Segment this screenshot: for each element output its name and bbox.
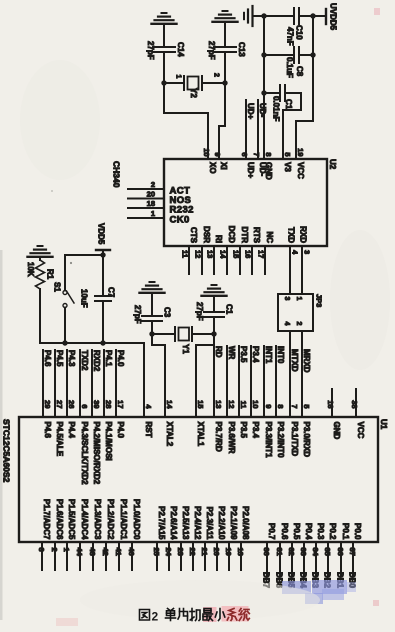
svg-text:27pF: 27pF — [133, 305, 142, 324]
U1 pin 21 P2.3/A11 — [200, 507, 214, 570]
svg-text:XTAL1: XTAL1 — [196, 422, 205, 447]
svg-text:35: 35 — [323, 548, 332, 556]
svg-text:41: 41 — [114, 548, 123, 556]
svg-text:P4.1: P4.1 — [104, 350, 113, 367]
svg-text:P4.5/ALE: P4.5/ALE — [55, 422, 64, 457]
svg-text:R1: R1 — [46, 269, 55, 280]
svg-text:33: 33 — [299, 548, 308, 556]
svg-text:P1.3/ADC3: P1.3/ADC3 — [93, 499, 102, 540]
svg-text:2: 2 — [151, 180, 155, 189]
U1 pin 33 P0.4 — [299, 523, 314, 589]
capacitor C10 47nF — [264, 8, 313, 46]
svg-text:4: 4 — [283, 322, 290, 326]
svg-text:STC12C5A60S2: STC12C5A60S2 — [2, 419, 12, 483]
capacitor C7 10uF — [80, 255, 116, 343]
U1 pin 34 P0.3 — [311, 523, 326, 589]
svg-text:24: 24 — [164, 548, 173, 557]
svg-text:P1.2/ADC2: P1.2/ADC2 — [106, 499, 115, 540]
capacitor C8 0.1uF — [264, 47, 313, 78]
svg-text:CK0: CK0 — [170, 215, 190, 226]
U1 pin 15 XTAL1 — [196, 400, 205, 447]
U1 pin 43 P1.3/ADC3 — [88, 499, 102, 570]
U1 pin 23 P2.5/A13 — [176, 506, 190, 570]
svg-text:INT0: INT0 — [276, 346, 285, 364]
svg-text:30: 30 — [262, 548, 271, 556]
wire Y1 right node — [192, 331, 217, 336]
svg-text:P4.0: P4.0 — [116, 422, 125, 439]
U2 pin 13 RI — [206, 235, 224, 274]
wire C1 to V3 pin — [283, 93, 301, 159]
U1 pin 38 VCC — [350, 389, 365, 439]
svg-text:VCC: VCC — [296, 162, 305, 179]
U2 pin 7 UD- — [252, 152, 267, 176]
svg-text:P3.5: P3.5 — [239, 346, 248, 363]
svg-text:38: 38 — [350, 400, 359, 408]
svg-text:10uF: 10uF — [80, 289, 89, 308]
svg-text:7: 7 — [252, 152, 261, 156]
U2 pin 3 RXD — [299, 226, 312, 294]
svg-text:C1: C1 — [284, 99, 293, 110]
svg-text:32: 32 — [287, 548, 296, 556]
U1 pin 13 P3.7/RD — [214, 346, 223, 452]
crystal Y1 — [175, 327, 192, 354]
U1 pin 35 P0.2 — [323, 523, 338, 589]
svg-text:P3.1/TXD: P3.1/TXD — [290, 422, 299, 457]
svg-text:3: 3 — [283, 297, 290, 301]
U2 pin 11 CTS — [181, 227, 199, 274]
capacitor C1 0.01nF — [264, 85, 301, 121]
svg-text:25: 25 — [152, 548, 161, 556]
svg-text:P3.6/WR: P3.6/WR — [227, 422, 236, 454]
wire Y2 to U2 XI — [219, 83, 225, 159]
svg-text:GND: GND — [264, 162, 273, 180]
svg-text:TXD: TXD — [287, 227, 296, 243]
ground (C3) — [140, 282, 165, 293]
svg-text:P2.3/A11: P2.3/A11 — [205, 507, 214, 540]
U1 pin 24 P2.6/A14 — [164, 506, 178, 570]
U1 pin 17 P4.0 — [116, 350, 125, 439]
svg-text:16: 16 — [326, 400, 335, 408]
wire JP3 to U1 MTXD — [289, 331, 291, 417]
svg-text:26: 26 — [67, 400, 76, 408]
U1 pin 25 P2.7/A15 — [152, 506, 166, 570]
wire Y2 to U2 XO — [164, 83, 208, 159]
wire Y1 to XTAL1 — [196, 334, 214, 417]
svg-text:43: 43 — [88, 548, 97, 556]
U2 pin 1 CK0 — [128, 209, 190, 226]
svg-text:47nF: 47nF — [286, 27, 295, 46]
U1 pin 3 P1.7/ADC7 — [37, 499, 51, 570]
svg-text:UD-: UD- — [258, 103, 267, 118]
svg-text:P0.3: P0.3 — [316, 523, 325, 540]
svg-text:16: 16 — [244, 250, 253, 258]
svg-text:19: 19 — [296, 148, 305, 156]
U1 pin 36 P0.1 — [336, 523, 351, 589]
U2 pin 9 XI — [213, 152, 228, 169]
svg-text:12: 12 — [194, 250, 203, 258]
svg-text:2: 2 — [295, 322, 302, 326]
svg-text:27pF: 27pF — [146, 41, 155, 60]
svg-text:11: 11 — [181, 250, 190, 258]
svg-text:0.01nF: 0.01nF — [272, 96, 281, 121]
svg-text:TXD2: TXD2 — [80, 350, 89, 371]
connector JP3 — [278, 294, 324, 331]
U1 pin 7 P3.1/TXD — [290, 349, 299, 456]
svg-text:P0.5: P0.5 — [292, 523, 301, 540]
svg-text:34: 34 — [311, 548, 320, 557]
svg-text:P2.5/A13: P2.5/A13 — [181, 506, 190, 540]
svg-text:10: 10 — [202, 148, 211, 156]
wire Y2 pin1 row — [161, 80, 184, 85]
U1 pin 4 RST — [144, 404, 153, 437]
svg-text:P3.7/RD: P3.7/RD — [214, 422, 223, 452]
wire UVDD5 bus to VCC pin — [296, 13, 316, 159]
op-amp U1 STC12C5A60S2 box — [19, 417, 378, 542]
svg-text:C3: C3 — [163, 307, 172, 318]
U1 pin 9 P3.3/INT1 — [264, 346, 273, 458]
svg-text:P4.1/MOSI: P4.1/MOSI — [104, 422, 113, 461]
U2 pin 20 NOS — [128, 189, 191, 206]
svg-text:P0.7: P0.7 — [267, 523, 276, 540]
svg-text:C1: C1 — [225, 304, 234, 315]
svg-text:P0.1: P0.1 — [341, 523, 350, 540]
svg-text:P2.1/A09: P2.1/A09 — [229, 506, 238, 540]
svg-text:9: 9 — [213, 152, 222, 156]
caption 图2 单片机最小系统 — [203, 606, 249, 622]
power UVDD5 — [313, 3, 338, 31]
svg-text:Y1: Y1 — [181, 344, 190, 354]
svg-text:P1.6/ADC6: P1.6/ADC6 — [55, 499, 64, 540]
U1 pin 27 P4.5/ALE — [55, 350, 64, 457]
switch S1 — [53, 255, 75, 343]
wire RST rail — [40, 340, 144, 345]
svg-text:RD: RD — [214, 346, 223, 358]
net UD- stub — [258, 100, 267, 159]
wire Y1 to XTAL2 — [152, 334, 165, 417]
U2 pin 8 GND — [264, 152, 273, 180]
svg-text:27pF: 27pF — [207, 41, 216, 60]
svg-text:UVDD5: UVDD5 — [329, 3, 338, 31]
U2 pin 14 DCD — [219, 226, 237, 274]
op-amp U2 CH340 box — [164, 159, 327, 246]
ground (R1) — [28, 246, 53, 257]
U1 pin 16 GND — [326, 389, 341, 440]
svg-text:S1: S1 — [53, 282, 62, 292]
svg-text:40: 40 — [127, 548, 136, 556]
svg-text:XTAL2: XTAL2 — [165, 422, 174, 447]
svg-text:P3.4: P3.4 — [251, 346, 260, 363]
U1 pin 6 P4.3/SCLK/TXD2 — [80, 350, 89, 485]
svg-text:C14: C14 — [176, 42, 185, 57]
svg-text:20: 20 — [212, 548, 221, 556]
svg-text:XI: XI — [219, 162, 228, 170]
U1 pin 37 P0.0 — [348, 523, 363, 589]
U1 pin 14 XTAL2 — [165, 400, 174, 447]
capacitor C3 27pF — [133, 294, 172, 334]
svg-text:23: 23 — [176, 548, 185, 556]
U2 pin 2 ACT — [128, 180, 190, 197]
U1 pin 44 P1.4/ADC4 — [75, 499, 89, 570]
svg-text:0.1uF: 0.1uF — [285, 57, 294, 78]
svg-text:18: 18 — [147, 199, 155, 208]
U1 pin 20 P2.2/A10 — [212, 506, 226, 570]
node GND rail — [261, 13, 266, 159]
power VDD5 — [96, 223, 110, 255]
U2 pin 6 UD+ — [240, 152, 255, 178]
U2 pin 4 TXD — [287, 227, 300, 294]
svg-text:18: 18 — [236, 548, 245, 556]
svg-text:P4.3: P4.3 — [67, 350, 76, 367]
svg-text:JP3: JP3 — [315, 294, 324, 307]
U1 pin 22 P2.4/A12 — [188, 506, 202, 570]
svg-text:U2: U2 — [328, 159, 337, 170]
U1 pin 30 P0.7 — [262, 523, 277, 589]
svg-text:GND: GND — [332, 422, 341, 440]
svg-text:P4.0: P4.0 — [116, 350, 125, 367]
U2 pin 19 VCC — [296, 148, 305, 179]
svg-text:XO: XO — [208, 162, 217, 174]
svg-text:DTR: DTR — [240, 227, 249, 244]
U2 pin 10 XO — [202, 148, 217, 173]
svg-text:RTS: RTS — [252, 227, 261, 244]
svg-text:42: 42 — [101, 548, 110, 556]
U1 pin 26 P4.4 — [67, 350, 76, 439]
svg-text:31: 31 — [275, 548, 284, 556]
svg-text:5: 5 — [283, 152, 292, 156]
caption glyphs — [140, 609, 250, 624]
svg-text:MTXD: MTXD — [290, 349, 299, 372]
U1 pin 28 P4.1/MOSI — [104, 350, 113, 461]
svg-text:RXD2: RXD2 — [92, 350, 101, 372]
svg-text:6: 6 — [80, 404, 89, 408]
svg-text:P1.4/ADC4: P1.4/ADC4 — [80, 499, 89, 540]
svg-text:P2.4/A12: P2.4/A12 — [193, 506, 202, 540]
svg-text:DSR: DSR — [202, 226, 211, 243]
U1 pin 11 P3.5 — [239, 346, 248, 439]
svg-text:19: 19 — [224, 548, 233, 556]
svg-text:P4.2/MISO/RXD2: P4.2/MISO/RXD2 — [92, 422, 101, 485]
svg-text:17: 17 — [257, 250, 266, 258]
svg-text:P0.6: P0.6 — [280, 523, 289, 540]
ground (C13) — [213, 11, 238, 22]
ground (C14) — [152, 13, 177, 24]
svg-text:3: 3 — [303, 250, 312, 254]
svg-text:P0.2: P0.2 — [328, 523, 337, 540]
capacitor C13 27pF — [207, 23, 246, 83]
svg-text:P2.2/A10: P2.2/A10 — [217, 506, 226, 540]
svg-text:17: 17 — [116, 400, 125, 408]
svg-text:28: 28 — [104, 400, 113, 408]
svg-text:13: 13 — [214, 400, 223, 408]
svg-text:CH340: CH340 — [112, 161, 122, 188]
U1 pin 18 P2.0/A08 — [236, 506, 250, 570]
svg-text:C13: C13 — [237, 42, 246, 57]
svg-text:VCC: VCC — [356, 422, 365, 439]
svg-text:3: 3 — [37, 548, 46, 552]
svg-text:P4.3/SCLK/TXD2: P4.3/SCLK/TXD2 — [80, 422, 89, 486]
svg-text:7: 7 — [290, 404, 299, 408]
svg-text:10: 10 — [251, 400, 260, 408]
svg-text:29: 29 — [43, 400, 52, 408]
crystal Y2 — [175, 73, 220, 98]
svg-text:P4.5: P4.5 — [55, 350, 64, 367]
svg-text:WR: WR — [227, 346, 236, 360]
U2 pin 12 DSR — [194, 226, 212, 274]
U1 pin 41 P1.1/ADC1 — [114, 499, 128, 570]
svg-text:DCD: DCD — [227, 226, 236, 244]
svg-text:44: 44 — [75, 548, 84, 557]
svg-text:12: 12 — [227, 400, 236, 408]
svg-text:9: 9 — [264, 404, 273, 408]
svg-text:P4.6: P4.6 — [43, 350, 52, 367]
U1 pin 12 P3.6/WR — [227, 346, 236, 454]
U2 pin 15 DTR — [232, 227, 250, 274]
svg-text:1: 1 — [151, 209, 155, 218]
svg-text:2: 2 — [152, 610, 159, 624]
svg-text:14: 14 — [219, 250, 228, 259]
U2 pin 16 RTS — [244, 227, 262, 274]
U2 pin 18 R232 — [128, 199, 194, 216]
svg-text:P1.5/ADC5: P1.5/ADC5 — [67, 499, 76, 540]
U1 pin 32 P0.5 — [287, 523, 302, 589]
svg-text:15: 15 — [232, 250, 241, 258]
U1 pin 5 P3.0/RXD — [302, 349, 311, 457]
U1 pin 8 P3.2/INT0 — [276, 346, 285, 458]
U1 pin 19 P2.1/A09 — [224, 506, 238, 570]
svg-text:36: 36 — [336, 548, 345, 556]
svg-text:P4.4: P4.4 — [67, 422, 76, 439]
svg-text:UD+: UD+ — [246, 162, 255, 179]
svg-text:RXD: RXD — [299, 226, 308, 243]
svg-text:P3.2/INT0: P3.2/INT0 — [276, 422, 285, 459]
svg-text:MRXD: MRXD — [302, 349, 311, 373]
svg-text:P0.4: P0.4 — [304, 523, 313, 540]
U1 pin 39 P4.2/MISO/RXD2 — [92, 350, 101, 485]
svg-text:2: 2 — [213, 73, 220, 77]
svg-text:37: 37 — [348, 548, 357, 556]
svg-text:CTS: CTS — [189, 227, 198, 244]
svg-text:P2.7/A15: P2.7/A15 — [157, 506, 166, 540]
svg-text:U1: U1 — [379, 419, 388, 430]
U1 pin 29 P4.6 — [43, 350, 52, 439]
svg-text:10K: 10K — [26, 262, 35, 277]
svg-text:1: 1 — [62, 548, 71, 552]
svg-text:UD+: UD+ — [246, 103, 255, 120]
svg-text:INT1: INT1 — [264, 346, 273, 364]
svg-text:20: 20 — [147, 189, 155, 198]
svg-text:1: 1 — [175, 75, 182, 79]
svg-text:P1.0/ADC0: P1.0/ADC0 — [132, 499, 141, 540]
U1 pin 42 P1.2/ADC2 — [101, 499, 115, 570]
svg-text:8: 8 — [276, 404, 285, 408]
svg-text:P3.3/INT1: P3.3/INT1 — [264, 422, 273, 459]
svg-text:P2.0/A08: P2.0/A08 — [241, 506, 250, 540]
U1 pin 40 P1.0/ADC0 — [127, 499, 141, 570]
wire RST to U1 pin 4 — [143, 343, 145, 417]
wire VDD5 rail — [65, 252, 106, 257]
svg-text:27pF: 27pF — [195, 302, 204, 321]
U1 pin 1 P1.5/ADC5 — [62, 499, 76, 570]
svg-text:11: 11 — [239, 401, 248, 409]
svg-text:2: 2 — [50, 548, 59, 552]
wire JP3 to U1 MRXD — [301, 331, 303, 417]
svg-text:13: 13 — [206, 250, 215, 258]
ground (C1x) — [202, 285, 227, 296]
U1 pin 2 P1.6/ADC6 — [50, 499, 64, 570]
resistor R1 10K — [26, 257, 55, 343]
svg-text:P1.1/ADC1: P1.1/ADC1 — [119, 499, 128, 540]
svg-text:27: 27 — [55, 400, 64, 408]
svg-text:Y2: Y2 — [189, 88, 198, 98]
svg-text:22: 22 — [188, 548, 197, 556]
svg-text:P0.0: P0.0 — [353, 523, 362, 540]
svg-text:6: 6 — [240, 152, 249, 156]
capacitor C1 27pF — [195, 297, 234, 334]
svg-text:P1.7/ADC7: P1.7/ADC7 — [42, 499, 51, 540]
svg-text:P4.6: P4.6 — [43, 422, 52, 439]
U2 pin 5 V3 — [283, 152, 292, 172]
svg-text:39: 39 — [92, 400, 101, 408]
svg-text:V3: V3 — [283, 162, 292, 172]
svg-text:P2.6/A14: P2.6/A14 — [169, 506, 178, 540]
svg-text:8: 8 — [264, 152, 273, 156]
svg-text:C8: C8 — [295, 66, 304, 77]
svg-text:P3.0/RXD: P3.0/RXD — [302, 422, 311, 458]
svg-text:21: 21 — [200, 548, 209, 556]
svg-text:C10: C10 — [295, 25, 304, 40]
svg-text:P3.4: P3.4 — [251, 422, 260, 439]
U1 pin 10 P3.4 — [251, 346, 260, 439]
U1 pin 31 P0.6 — [275, 523, 290, 589]
net UD+ stub — [246, 100, 255, 159]
svg-text:P3.5: P3.5 — [239, 422, 248, 439]
svg-text:5: 5 — [302, 404, 311, 408]
svg-text:1: 1 — [295, 297, 302, 301]
svg-text:VDD5: VDD5 — [97, 223, 106, 245]
U2 pin 17 NC — [257, 231, 275, 274]
svg-text:C7: C7 — [107, 287, 116, 298]
wire Y2 pin2 row — [202, 80, 228, 85]
svg-text:15: 15 — [196, 400, 205, 408]
capacitor C14 27pF — [146, 25, 185, 83]
ground (C10 left) — [244, 6, 264, 26]
svg-text:RI: RI — [214, 235, 223, 243]
svg-text:NC: NC — [265, 231, 274, 243]
svg-text:RST: RST — [144, 422, 153, 438]
svg-text:14: 14 — [165, 400, 174, 409]
wire Y1 left node — [149, 331, 175, 336]
